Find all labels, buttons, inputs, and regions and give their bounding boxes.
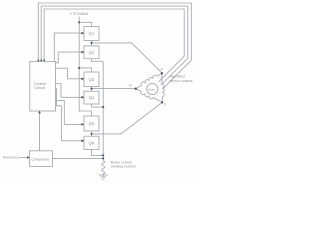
svg-text:Q3: Q3 xyxy=(89,77,95,82)
node A dot xyxy=(161,72,163,74)
node B dot xyxy=(135,88,137,90)
junction Q4/bus xyxy=(102,106,104,108)
motor winding C-A xyxy=(162,73,164,102)
hall wire end dot 2 xyxy=(40,59,42,61)
resistor (motor current sensing) xyxy=(101,161,104,177)
node C dot xyxy=(161,101,163,103)
arrowhead into comparator (reference) xyxy=(27,156,30,159)
control wire to Q1 xyxy=(54,33,84,61)
svg-text:Q2: Q2 xyxy=(89,50,95,55)
ground xyxy=(99,175,109,179)
wire Q2 to ground bus xyxy=(92,59,104,62)
hall sensor wire 2 (middle) xyxy=(41,6,188,85)
svg-text:Q4: Q4 xyxy=(89,95,95,100)
junction +V/Q3 xyxy=(78,67,80,69)
hall sensor wire 1 (outer) xyxy=(38,3,191,88)
ground bus xyxy=(102,61,104,160)
transistor Q1 xyxy=(84,27,99,41)
wire comparator to control xyxy=(39,111,41,151)
junction comparator/bus xyxy=(102,157,104,159)
arrowhead into control (from comparator) xyxy=(38,111,41,114)
svg-text:Reference: Reference xyxy=(3,156,19,160)
transistor Q3 xyxy=(84,72,99,87)
junction +V/Q1 xyxy=(78,21,80,23)
+V branch to Q3 xyxy=(79,68,91,72)
svg-text:Q1: Q1 xyxy=(89,31,95,36)
arrowhead into Q3 xyxy=(81,77,84,80)
wire Q5-Q6 xyxy=(91,131,93,136)
svg-text:Q6: Q6 xyxy=(89,140,95,145)
wire Q6 to ground bus xyxy=(92,149,104,155)
control wire to Q6 xyxy=(56,89,85,141)
phase B wire xyxy=(92,88,136,90)
transistor Q4 xyxy=(84,91,99,104)
hall wire end dot 3 xyxy=(43,59,45,61)
junction Q6/bus xyxy=(102,154,104,156)
transistor Q2 xyxy=(84,46,99,59)
wire Q3-Q4 xyxy=(91,87,93,92)
comparator output wire xyxy=(53,157,104,159)
junction phase C tap xyxy=(90,133,92,135)
arrowhead into Q6 xyxy=(81,139,84,142)
wire Q4 to ground bus xyxy=(92,104,104,107)
wire Q1-Q2 xyxy=(91,41,93,46)
phase C wire xyxy=(92,102,163,133)
svg-text:Rotor: Rotor xyxy=(148,87,155,91)
+V branch to Q1 xyxy=(79,22,91,26)
arrowhead into Q1 xyxy=(81,32,84,35)
motor winding B-C xyxy=(136,89,163,103)
svg-text:sensing resistor: sensing resistor xyxy=(111,165,137,169)
arrowhead into Q2 xyxy=(81,51,84,54)
control circuit box xyxy=(30,62,56,112)
svg-text:Circuit: Circuit xyxy=(34,86,46,90)
hall sensor wire 3 (inner) xyxy=(44,9,184,82)
motor winding A-B xyxy=(136,73,162,88)
arrowhead into Q4 xyxy=(81,96,84,99)
junction phase A tap xyxy=(90,42,92,44)
transistor Q5 xyxy=(84,116,99,131)
svg-text:Hall effect: Hall effect xyxy=(170,75,186,79)
rotor circle xyxy=(147,83,158,94)
svg-text:Comparator: Comparator xyxy=(31,157,50,161)
control wire to Q5 xyxy=(56,101,85,125)
+V motor rail xyxy=(79,17,91,117)
arrowhead into Q5 xyxy=(81,123,84,126)
comparator box xyxy=(30,151,53,167)
transistor Q6 xyxy=(84,136,99,149)
control wire to Q2 xyxy=(56,52,85,63)
hall wire end dot 1 xyxy=(37,59,39,61)
control wire to Q4 xyxy=(56,84,85,98)
reference arrow wire xyxy=(19,156,28,158)
junction phase B tap xyxy=(90,88,92,90)
svg-text:C: C xyxy=(164,103,167,107)
svg-text:Q5: Q5 xyxy=(89,121,95,126)
control wire to Q3 xyxy=(56,68,85,79)
svg-text:+ V motor: + V motor xyxy=(70,11,89,16)
phase A wire xyxy=(92,43,162,73)
svg-text:sensor outputs: sensor outputs xyxy=(170,79,193,83)
